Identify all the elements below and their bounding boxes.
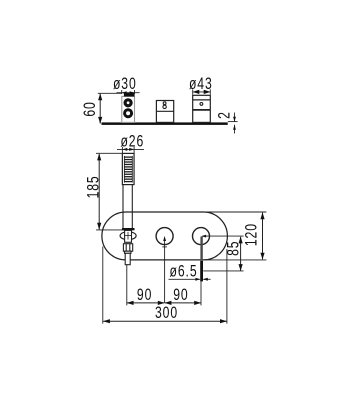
dimension 2 extension lines [228,121,238,123]
diverter control (side view, middle box) [156,101,173,123]
knob 2 (front) [193,228,210,245]
svg-text:90: 90 [137,286,152,304]
dimension 120 extension lines [204,211,267,213]
knob1 center leader arrow + extension [164,240,166,303]
svg-text:ø6.5: ø6.5 [170,263,198,281]
dimension ø43 line with outward arrows [193,91,211,93]
dimension 60 vertical line [99,94,101,124]
knob 1 (front) [156,228,173,245]
dimension ø26 line with outward arrows [117,148,144,150]
300 extension lines [102,247,104,324]
dimension 2 vertical line with converging arrows [234,113,236,122]
hand-shower holder bracket (side view) [122,93,135,122]
svg-text:ø30: ø30 [113,75,137,93]
wall plate edge-on (baseline bar) [102,122,228,125]
holder ring lower [125,110,132,117]
mixer knob ø43 (side view, right box) [193,95,211,122]
spray face stripes [125,157,133,182]
spout line ø6.5 (thick) [200,237,202,261]
svg-text:ø26: ø26 [120,133,144,151]
90/90 extension lines [126,265,128,306]
hose connector cone [125,251,132,265]
dimension 300 line [103,320,226,322]
dimension 120 vertical line [262,213,264,260]
svg-text:300: 300 [155,304,178,322]
hose nut [123,244,132,252]
mounting plate (stadium outline) [102,212,227,260]
85 bottom extension (from spout) [203,270,243,272]
ø26 extension lines [121,147,123,153]
dimension 90 right segment [165,302,201,304]
hand shower head [122,153,134,184]
knob2 center horizontal extension (85 top ref) [206,235,244,237]
185 top extension [96,152,122,154]
svg-text:90: 90 [173,286,188,304]
svg-text:60: 60 [82,101,100,116]
dimension 60 top extension line [98,92,122,94]
dimension 90 left segment [127,302,164,304]
svg-text:2: 2 [216,111,234,119]
svg-text:85: 85 [225,241,243,256]
holder ring upper [125,100,131,106]
svg-text:120: 120 [243,223,261,246]
185 bottom extension [96,229,124,231]
dimension 85 vertical line [240,237,242,271]
handle through holder [124,230,132,242]
svg-text:185: 185 [85,175,103,198]
holder ring (front view ellipse) [120,232,136,240]
dimension ø30 line with outward arrows [117,92,140,94]
dimension 185 vertical line [98,154,100,230]
hand shower handle [122,185,135,231]
